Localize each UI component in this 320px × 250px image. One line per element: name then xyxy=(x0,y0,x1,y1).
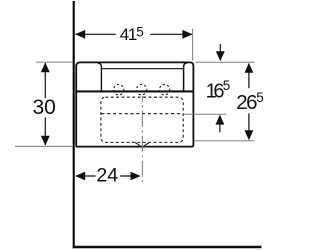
wall xyxy=(73,1,75,248)
dim 30 arrow down xyxy=(41,136,50,146)
tap hole dashed circle 1 xyxy=(114,85,124,95)
extension line bottom for 30 xyxy=(15,145,73,147)
hidden internal dashed line xyxy=(102,113,184,115)
dim 30 arrow up xyxy=(41,62,50,72)
dim 24 arrow right xyxy=(131,172,141,181)
svg-text:24: 24 xyxy=(96,165,118,187)
svg-text:30: 30 xyxy=(33,96,56,119)
dim 41.5 line xyxy=(76,33,116,35)
dim 24 arrow left xyxy=(75,172,85,181)
svg-text:5: 5 xyxy=(256,90,264,105)
extension line y62 right xyxy=(196,61,255,63)
tap hole dashed circle 3 xyxy=(159,85,169,95)
extension line y114 xyxy=(184,113,226,115)
tap hole dashed circle 2 xyxy=(136,85,146,95)
dim 24 line xyxy=(76,175,96,177)
drain funnel dashed left xyxy=(135,143,140,148)
dim 41.5 arrow left xyxy=(75,30,85,39)
hidden trap cover dashed box xyxy=(101,97,183,142)
dim 30 line xyxy=(44,63,46,98)
extension line top for 30 xyxy=(36,61,73,63)
dim 16.5 arrow up xyxy=(216,115,225,125)
drain funnel dashed right xyxy=(145,143,150,148)
bowl right inner wall xyxy=(184,63,188,91)
svg-text:5: 5 xyxy=(223,78,231,93)
svg-text:16: 16 xyxy=(206,80,225,102)
extension line y141 xyxy=(194,140,255,142)
dim 26.5 arrow down xyxy=(245,130,254,140)
basin outer body xyxy=(76,62,193,146)
dim 16.5 bottom leader xyxy=(219,123,221,132)
svg-text:5: 5 xyxy=(136,24,144,39)
dim 16.5 top leader xyxy=(219,44,221,53)
dim 26.5 arrow up xyxy=(245,63,254,73)
far rim edge xyxy=(102,68,184,70)
drain centerline xyxy=(141,96,143,182)
extension line right of 41.5 xyxy=(192,29,194,61)
dim 16.5 arrow down xyxy=(216,51,225,61)
floor xyxy=(73,246,262,249)
svg-text:41: 41 xyxy=(120,25,137,44)
bowl left inner wall xyxy=(98,63,102,91)
basin mid shelf line xyxy=(76,90,193,92)
dim 41.5 arrow right xyxy=(182,30,192,39)
dim 26.5 line xyxy=(248,71,250,88)
svg-text:26: 26 xyxy=(236,91,257,114)
